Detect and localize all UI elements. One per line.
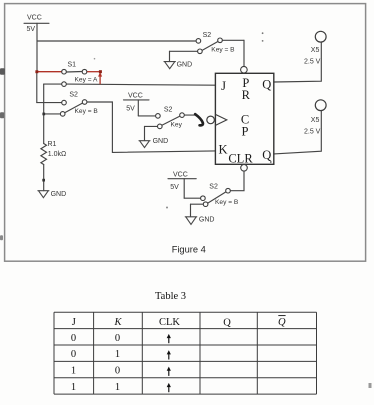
svg-text:5V: 5V xyxy=(27,26,36,33)
svg-text:Q: Q xyxy=(262,78,271,92)
svg-text:Key = A: Key = A xyxy=(75,77,99,84)
svg-text:Key = B: Key = B xyxy=(215,199,239,206)
svg-text:J: J xyxy=(221,79,226,93)
svg-text:Figure 4: Figure 4 xyxy=(172,244,206,254)
svg-text:2.5 V: 2.5 V xyxy=(304,129,321,136)
svg-text:K: K xyxy=(218,143,227,157)
svg-text:Key = B: Key = B xyxy=(211,47,235,54)
svg-text:VCC: VCC xyxy=(128,93,143,100)
svg-text:X5: X5 xyxy=(311,117,320,124)
svg-text:P: P xyxy=(242,125,249,139)
svg-text:Key: Key xyxy=(171,121,183,128)
svg-text:GND: GND xyxy=(51,191,67,198)
svg-text:Key = B: Key = B xyxy=(75,108,99,115)
svg-text:CLK: CLK xyxy=(159,317,180,328)
svg-text:S2: S2 xyxy=(203,32,212,39)
svg-text:GND: GND xyxy=(199,217,215,224)
svg-text:1: 1 xyxy=(115,382,120,393)
svg-text:1: 1 xyxy=(71,366,76,377)
svg-text:0: 0 xyxy=(115,333,120,344)
svg-text:J: J xyxy=(72,317,76,328)
svg-text:Q: Q xyxy=(278,317,286,328)
svg-text:S2: S2 xyxy=(69,92,78,99)
svg-text:0: 0 xyxy=(71,349,76,360)
svg-text:R: R xyxy=(242,88,251,102)
svg-text:S2: S2 xyxy=(164,107,173,114)
svg-text:VCC: VCC xyxy=(173,171,188,178)
svg-text:S1: S1 xyxy=(68,61,77,68)
svg-text:2.5 V: 2.5 V xyxy=(304,58,321,65)
svg-text:1: 1 xyxy=(71,382,76,393)
svg-text:CLR: CLR xyxy=(228,151,253,165)
svg-text:K: K xyxy=(113,317,122,328)
svg-text:0: 0 xyxy=(71,333,76,344)
svg-text:GND: GND xyxy=(177,62,193,69)
svg-text:0: 0 xyxy=(115,366,120,377)
svg-text:5V: 5V xyxy=(126,105,135,112)
svg-text:X5: X5 xyxy=(311,47,320,54)
svg-text:5V: 5V xyxy=(170,184,179,191)
svg-text:Q: Q xyxy=(262,148,271,162)
svg-text:Q: Q xyxy=(223,318,231,329)
svg-text:GND: GND xyxy=(153,138,169,145)
svg-text:S2: S2 xyxy=(209,184,218,191)
svg-text:1: 1 xyxy=(115,349,120,360)
svg-text:Table 3: Table 3 xyxy=(155,291,186,302)
svg-text:1.0kΩ: 1.0kΩ xyxy=(48,151,66,158)
svg-text:R1: R1 xyxy=(48,141,57,148)
svg-text:VCC: VCC xyxy=(27,15,42,22)
